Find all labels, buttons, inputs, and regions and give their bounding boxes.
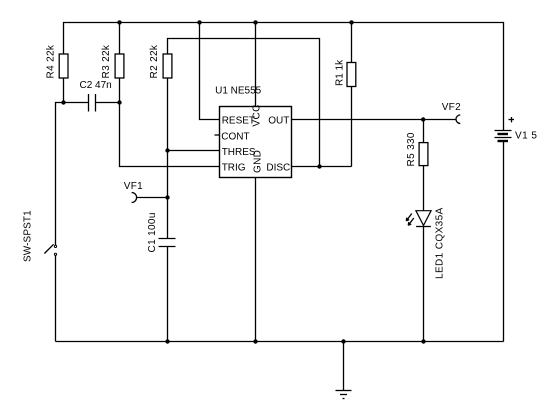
IC U1 NE555 (215, 86, 291, 178)
wire TRIG net from node B to pin (120, 103, 220, 167)
ground (336, 342, 352, 399)
wire top rail VCC net (64, 23, 504, 131)
wire R2 top to DISC (168, 39, 320, 167)
resistor R5 (406, 132, 428, 166)
wire R1 top lead (351, 23, 353, 63)
resistor R4 (46, 44, 68, 78)
wire node A to switch (56, 103, 64, 246)
wire bottom rail ground net (56, 341, 504, 343)
svg-text:TRIG: TRIG (222, 163, 246, 174)
battery V1 (495, 117, 538, 142)
wire THRES pin (168, 150, 220, 152)
node C1 bottom junction (165, 339, 169, 343)
svg-text:RESET: RESET (222, 116, 255, 127)
wire THRES node to VF1 node (167, 151, 169, 198)
resistor R3 (101, 44, 124, 78)
resistor R1 (335, 59, 356, 87)
wire GND pin lead (255, 178, 257, 342)
capacitor C1 (147, 198, 176, 342)
node top rail to VCC pin (253, 20, 257, 24)
terminal VF2 (442, 102, 461, 124)
node top rail to R1 (349, 20, 353, 24)
wire RESET net (200, 23, 220, 120)
wire C2 left lead (64, 102, 89, 104)
svg-text:R3 22k: R3 22k (101, 44, 112, 78)
node top rail to R3 (117, 20, 121, 24)
svg-text:R2 22k: R2 22k (149, 44, 160, 78)
resistor R2 (149, 44, 172, 78)
svg-text:OUT: OUT (268, 116, 289, 127)
LED LED1 CQX35A (406, 207, 445, 279)
wire R2 bottom lead (167, 78, 169, 151)
svg-text:C1 100u: C1 100u (147, 212, 158, 252)
svg-text:VF2: VF2 (442, 102, 461, 113)
wire VCC pin lead (255, 23, 257, 107)
wire battery bottom lead (503, 141, 505, 342)
wire OUT net (292, 119, 457, 121)
node THRES junction (165, 148, 169, 152)
switch SW-SPST1 (23, 210, 57, 262)
wire R5 top lead (423, 120, 425, 143)
capacitor C2 (80, 80, 112, 111)
svg-text:R4 22k: R4 22k (46, 44, 57, 78)
node DISC junction (317, 164, 321, 168)
svg-text:V1 5: V1 5 (515, 131, 537, 142)
wire switch to bottom rail (55, 255, 57, 341)
node GND bottom junction (253, 339, 257, 343)
svg-text:DISC: DISC (266, 163, 290, 174)
svg-text:U1 NE555: U1 NE555 (215, 86, 262, 97)
node LED bottom junction (421, 339, 425, 343)
svg-text:LED1 CQX35A: LED1 CQX35A (434, 207, 445, 279)
svg-text:C2 47n: C2 47n (80, 80, 112, 91)
node top rail to RESET (197, 20, 201, 24)
svg-text:R5 330: R5 330 (406, 132, 417, 166)
node B junction C2/R3/TRIG (117, 100, 121, 104)
svg-text:CONT: CONT (221, 131, 249, 142)
node VF1 junction (165, 195, 169, 199)
wire CONT stub (215, 134, 220, 136)
svg-text:SW-SPST1: SW-SPST1 (23, 210, 34, 262)
node OUT/R5/VF2 junction (421, 117, 425, 121)
wire R3 bottom lead (119, 78, 121, 103)
wire R5 to LED (423, 166, 425, 211)
svg-text:VF1: VF1 (124, 181, 143, 192)
wire LED bottom lead (423, 227, 425, 342)
wire C2 right lead (96, 102, 120, 104)
wire R3 top lead (119, 23, 121, 55)
wire DISC pin to R1 (292, 166, 352, 168)
svg-text:R1 1k: R1 1k (335, 59, 346, 86)
svg-text:THRES: THRES (222, 147, 256, 158)
wire R4 bottom lead (63, 78, 65, 103)
terminal VF1 (124, 181, 168, 203)
wire R1 bottom lead (351, 87, 353, 167)
svg-text:GND: GND (253, 150, 264, 173)
node A junction R4/C2/switch (61, 100, 65, 104)
svg-text:VCC: VCC (251, 104, 262, 126)
node ground junction (341, 339, 345, 343)
